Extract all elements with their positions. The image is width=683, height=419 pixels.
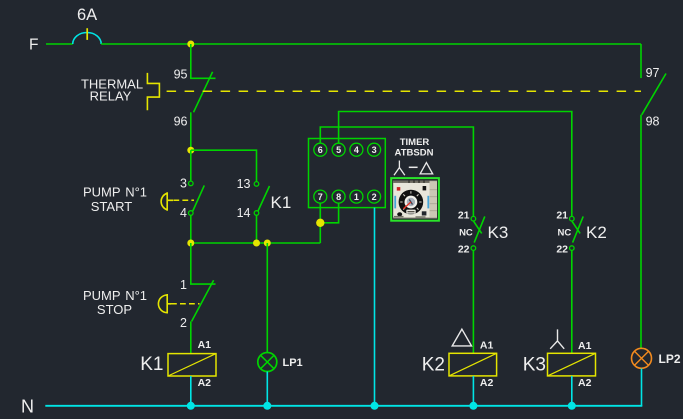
- svg-text:TIMER: TIMER: [400, 137, 430, 148]
- svg-text:K2: K2: [422, 354, 445, 375]
- svg-text:1: 1: [354, 192, 359, 202]
- svg-text:K1: K1: [140, 354, 163, 375]
- svg-text:RELAY: RELAY: [90, 89, 132, 104]
- socket pin 7: [314, 190, 327, 203]
- socket pin 2: [368, 190, 381, 203]
- lamp LP1: [258, 353, 277, 372]
- wire K1 coil to N: [190, 376, 192, 406]
- junction dot at F rail: [187, 41, 194, 48]
- thermal relay trip dashed line: [167, 90, 641, 92]
- start contact terminal 4: [189, 211, 194, 216]
- junction dot row left: [187, 240, 194, 247]
- wire K2 coil to N: [472, 376, 474, 406]
- svg-text:22: 22: [458, 243, 470, 255]
- thermal relay NC contact 95-96 blade: [194, 72, 213, 113]
- wire left rail down to thermal contact: [191, 44, 216, 78]
- svg-text:3: 3: [180, 177, 187, 191]
- thermal relay NO contact 97-98 blade: [642, 74, 666, 115]
- junction dot: [187, 147, 194, 154]
- svg-text:13: 13: [237, 177, 251, 191]
- svg-text:4: 4: [180, 206, 187, 220]
- wire K3 coil to N: [571, 376, 573, 406]
- timer photo: [391, 178, 439, 221]
- wire pin5 to K2 NC contact: [339, 112, 572, 217]
- coil K2: [449, 353, 497, 376]
- wire pin7 down: [319, 203, 321, 223]
- svg-text:96: 96: [174, 115, 188, 129]
- stop pushbutton dashed link: [171, 303, 200, 305]
- svg-text:14: 14: [237, 206, 251, 220]
- wire LP2 to N: [641, 369, 643, 406]
- svg-text:LP1: LP1: [283, 357, 303, 369]
- junction dots on N rail: [187, 402, 195, 410]
- wire right rail from top to 97: [640, 44, 642, 78]
- svg-text:K3: K3: [523, 354, 546, 375]
- svg-text:PUMP N°1: PUMP N°1: [83, 288, 147, 303]
- wire 4 down to junction row: [190, 215, 192, 243]
- wire LP1 branch: [266, 243, 268, 353]
- wire pin6 to K3 NC contact: [320, 127, 473, 216]
- svg-text:F: F: [29, 37, 38, 54]
- svg-text:A2: A2: [480, 377, 494, 389]
- svg-text:N: N: [21, 397, 34, 417]
- wire pin2 to N: [374, 208, 376, 406]
- star symbol above K3 coil: [550, 329, 564, 348]
- start pushbutton dashed link: [173, 199, 194, 201]
- junction dot 14 branch: [253, 240, 260, 247]
- wire F left segment: [46, 43, 73, 45]
- wire stop to K1 coil: [190, 321, 192, 353]
- K1 NO contact blade: [258, 186, 270, 211]
- svg-text:K3: K3: [488, 223, 509, 242]
- socket pin 3: [368, 143, 381, 156]
- wire junction row horizontal: [191, 242, 320, 244]
- svg-text:4: 4: [354, 145, 359, 155]
- svg-text:NC: NC: [557, 228, 571, 239]
- wire K3 NC to K2 coil: [472, 250, 474, 353]
- wire socket pin7 riser: [319, 223, 321, 243]
- svg-text:3: 3: [372, 145, 377, 155]
- junction dot below pin7: [316, 219, 324, 227]
- svg-text:A2: A2: [198, 377, 212, 389]
- coil K1 diagonal: [168, 354, 216, 376]
- junction dot LP1 branch: [264, 240, 271, 247]
- svg-text:ATBSDN: ATBSDN: [395, 148, 434, 159]
- timer socket outline: [309, 139, 386, 208]
- wire K2 NC to K3 coil: [571, 250, 573, 353]
- lamp LP2: [632, 348, 652, 368]
- socket pin 4: [350, 143, 363, 156]
- stop pushbutton actuator: [158, 294, 171, 314]
- svg-text:K1: K1: [271, 193, 292, 212]
- start pushbutton actuator: [161, 192, 173, 211]
- fuse F1 arc: [73, 33, 102, 45]
- svg-text:LP2: LP2: [659, 352, 681, 366]
- socket pin 5: [332, 143, 345, 156]
- svg-text:STOP: STOP: [97, 302, 132, 317]
- svg-text:21: 21: [556, 210, 568, 222]
- socket pin 6: [314, 143, 327, 156]
- svg-text:95: 95: [174, 68, 188, 82]
- svg-text:6A: 6A: [77, 6, 97, 24]
- wire LP1 to N: [266, 372, 268, 406]
- K3 NC contact (series with K2 coil): [471, 216, 476, 221]
- svg-text:A2: A2: [578, 377, 592, 389]
- wire N rail: [45, 405, 642, 407]
- svg-text:2: 2: [372, 192, 377, 202]
- svg-text:8: 8: [336, 192, 341, 202]
- svg-text:22: 22: [556, 243, 568, 255]
- wire branch to K1 contact 13: [191, 150, 257, 181]
- wire pin8 down-left: [320, 203, 338, 223]
- svg-text:A1: A1: [480, 339, 494, 351]
- wire down to stop contact: [191, 243, 216, 284]
- K2 NC contact (series with K3 coil): [570, 216, 575, 221]
- svg-text:START: START: [91, 199, 132, 214]
- wire 96 down to node: [190, 112, 192, 150]
- K1 contact terminal 13: [254, 182, 259, 187]
- start NO contact blade: [193, 185, 205, 211]
- K1 contact terminal 14: [254, 211, 259, 216]
- socket pin 1: [350, 190, 363, 203]
- coil K1: [168, 354, 216, 376]
- svg-text:K2: K2: [586, 223, 607, 242]
- svg-text:97: 97: [646, 66, 660, 80]
- coil K3: [548, 353, 596, 376]
- svg-text:6: 6: [318, 145, 323, 155]
- star-delta symbol: [394, 161, 405, 176]
- svg-text:21: 21: [458, 210, 470, 222]
- svg-text:98: 98: [646, 114, 660, 128]
- svg-text:A1: A1: [198, 339, 212, 351]
- fuse F1 tick: [86, 28, 88, 40]
- svg-text:2: 2: [180, 316, 187, 330]
- wire 98 down to LP2: [640, 115, 642, 348]
- wire 14 down to junction row: [256, 215, 258, 243]
- wire main top rail: [101, 43, 641, 45]
- wire down to start contact: [190, 150, 192, 181]
- socket pin 8: [332, 190, 345, 203]
- svg-text:5: 5: [336, 145, 341, 155]
- svg-text:A1: A1: [578, 340, 592, 352]
- svg-text:7: 7: [318, 192, 323, 202]
- stop NC contact blade: [192, 280, 214, 321]
- thermal relay heater symbol: [147, 73, 159, 110]
- delta symbol above K2 coil: [452, 329, 471, 346]
- start contact terminal 3: [189, 181, 194, 186]
- svg-text:PUMP N°1: PUMP N°1: [83, 185, 147, 200]
- svg-text:NC: NC: [459, 228, 473, 239]
- svg-text:1: 1: [180, 278, 187, 292]
